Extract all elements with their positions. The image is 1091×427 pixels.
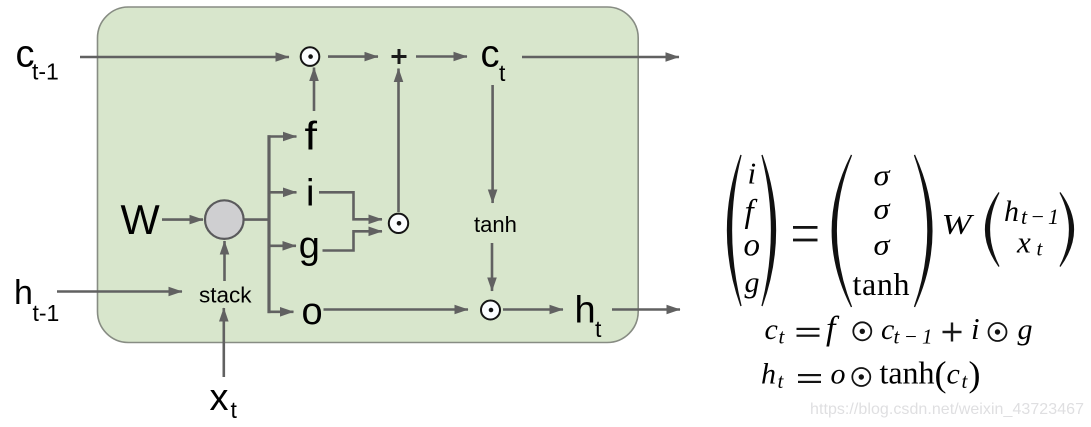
wire o to mul3 xyxy=(324,308,469,311)
label h_{t-1} xyxy=(14,274,59,326)
svg-text:c: c xyxy=(765,313,778,346)
label h_t xyxy=(575,290,603,343)
equation row3 odot3 xyxy=(852,368,870,386)
svg-text:t: t xyxy=(499,60,506,86)
stack node circle xyxy=(205,200,244,239)
svg-text:o: o xyxy=(302,291,323,333)
wire x_t up to stack xyxy=(223,308,226,377)
equation row2 equals xyxy=(797,328,820,337)
svg-text:tanh: tanh xyxy=(474,212,517,237)
elementwise-mul node mul1 xyxy=(301,47,320,66)
svg-text:o: o xyxy=(831,358,846,391)
svg-text:): ) xyxy=(969,354,981,394)
svg-text:f: f xyxy=(305,115,318,159)
wire plus to c_t xyxy=(416,55,467,58)
wire i to mul2 xyxy=(319,192,382,219)
svg-text:t-1: t-1 xyxy=(32,59,59,85)
svg-text:g: g xyxy=(1018,313,1033,346)
svg-text:(: ( xyxy=(935,354,947,394)
svg-text:t: t xyxy=(778,369,785,393)
svg-text:t−1: t−1 xyxy=(894,325,933,349)
svg-text:t: t xyxy=(1037,237,1044,261)
equation row2 plus xyxy=(943,323,962,342)
wire stack up to node xyxy=(223,241,226,281)
svg-text:tanh: tanh xyxy=(853,266,910,302)
equation vector ifog right paren xyxy=(762,155,776,306)
label c_t xyxy=(481,34,507,87)
equation row3 tanh(c_t) xyxy=(880,354,981,394)
wire c_t output xyxy=(522,56,679,59)
svg-text:stack: stack xyxy=(199,283,252,308)
wire h_t output xyxy=(612,308,680,311)
svg-text:x: x xyxy=(210,377,229,419)
wire W to stack node xyxy=(162,218,203,221)
svg-text:h: h xyxy=(761,358,776,391)
wire branch g xyxy=(268,245,297,248)
elementwise-mul node mul2 xyxy=(389,214,408,233)
elementwise-mul node mul3 xyxy=(481,301,500,320)
equation vector ifog entries xyxy=(744,156,761,300)
svg-text:σ: σ xyxy=(874,229,891,262)
equation vector ifog left paren xyxy=(728,155,742,306)
label c_{t-1} xyxy=(16,34,59,85)
svg-text:t-1: t-1 xyxy=(33,300,60,326)
wire g to mul2 xyxy=(323,231,383,250)
svg-text:o: o xyxy=(744,228,761,264)
svg-text:tanh: tanh xyxy=(880,355,935,391)
svg-text:W: W xyxy=(121,196,161,243)
equation row3 equals xyxy=(798,374,821,383)
svg-text:W: W xyxy=(942,210,975,241)
wire branch i xyxy=(268,191,297,194)
wire c_t down to tanh xyxy=(491,85,494,203)
equation hx vector h_{t-1} xyxy=(1004,195,1059,229)
svg-text:c: c xyxy=(481,34,500,76)
wire branch o xyxy=(268,310,294,313)
svg-text:https://blog.csdn.net/weixin_4: https://blog.csdn.net/weixin_43723467 xyxy=(810,401,1084,418)
plus node xyxy=(392,49,407,64)
svg-text:i: i xyxy=(748,156,757,191)
equation row2 odot1 xyxy=(853,322,871,340)
equation row2 odot2 xyxy=(989,323,1007,341)
svg-text:g: g xyxy=(745,266,760,299)
svg-text:t: t xyxy=(962,369,969,393)
equation gates vector entries sigma sigma sigma tanh xyxy=(853,159,910,302)
wire tanh down to mul3 xyxy=(491,243,494,291)
equation row2 c_t xyxy=(765,313,786,349)
svg-text:g: g xyxy=(299,225,320,267)
svg-text:h: h xyxy=(1004,195,1019,228)
svg-text:x: x xyxy=(1016,225,1031,260)
wire mul3 to h_t xyxy=(503,308,563,311)
equation gates vector right paren xyxy=(915,155,932,307)
svg-text:t: t xyxy=(595,316,602,342)
svg-text:c: c xyxy=(881,313,894,346)
svg-text:t: t xyxy=(779,325,786,349)
equation row2 c_{t-1} xyxy=(881,313,933,349)
svg-text:f: f xyxy=(826,311,840,348)
wire c_{t-1} input line xyxy=(80,56,289,59)
wire branch f xyxy=(268,135,297,138)
wire f up to mul1 xyxy=(313,68,316,112)
svg-text:σ: σ xyxy=(874,159,891,192)
svg-text:t: t xyxy=(231,397,238,423)
wire mul1 to plus xyxy=(328,55,378,58)
equation hx vector x_t xyxy=(1016,225,1044,261)
svg-text:i: i xyxy=(306,173,314,215)
wire node to bus xyxy=(244,218,270,221)
svg-text:f: f xyxy=(745,194,758,230)
wire h_{t-1} input xyxy=(57,290,182,293)
equation equals row1 xyxy=(793,226,818,241)
equation gates vector left paren xyxy=(832,155,851,307)
svg-text:σ: σ xyxy=(874,193,891,226)
LSTM cell box xyxy=(98,7,639,343)
equation row3 h_t xyxy=(761,358,785,394)
wire bus vertical xyxy=(267,135,270,313)
svg-text:i: i xyxy=(971,311,980,346)
wire mul2 up to plus xyxy=(397,69,400,213)
svg-text:h: h xyxy=(14,274,33,312)
label x_t xyxy=(210,377,238,423)
equation hx vector right paren xyxy=(1060,193,1074,267)
svg-text:c: c xyxy=(947,358,960,391)
svg-text:h: h xyxy=(575,290,596,332)
equation hx vector left paren xyxy=(986,193,1000,267)
